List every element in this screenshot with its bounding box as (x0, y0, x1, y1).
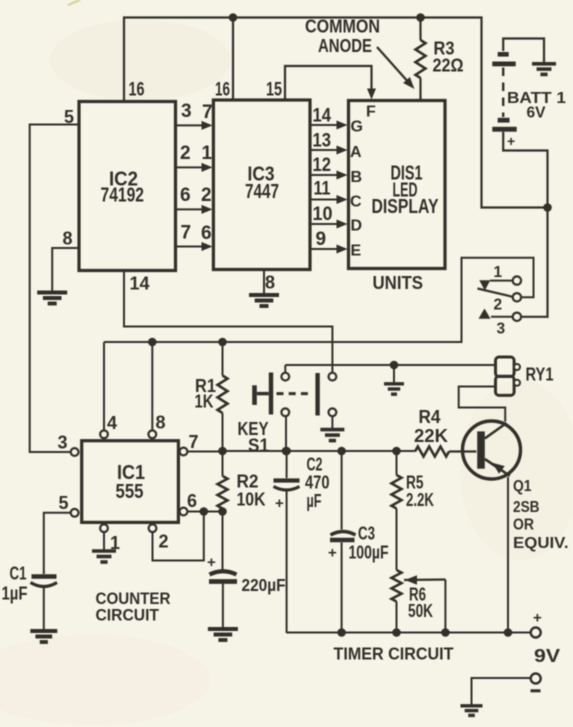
svg-text:R2: R2 (237, 472, 259, 492)
svg-text:F: F (366, 104, 376, 121)
svg-text:D: D (351, 218, 363, 235)
svg-text:10: 10 (313, 204, 333, 225)
svg-text:2: 2 (180, 143, 191, 164)
svg-text:3: 3 (58, 433, 68, 453)
svg-text:8: 8 (156, 413, 166, 433)
svg-text:+: + (207, 554, 216, 571)
svg-text:2SB: 2SB (513, 499, 540, 516)
svg-text:15: 15 (266, 80, 282, 101)
svg-text:1: 1 (110, 533, 120, 553)
svg-text:4: 4 (107, 413, 117, 433)
svg-text:7: 7 (189, 432, 199, 452)
svg-text:14: 14 (313, 106, 332, 127)
svg-text:1: 1 (494, 264, 503, 281)
svg-text:E: E (351, 243, 362, 260)
svg-text:7447: 7447 (245, 181, 279, 203)
svg-text:C3: C3 (358, 524, 375, 544)
svg-text:9V: 9V (534, 646, 560, 666)
svg-text:EQUIV.: EQUIV. (513, 535, 569, 552)
svg-text:Q1: Q1 (513, 478, 532, 495)
svg-text:12: 12 (313, 155, 332, 176)
svg-text:C1: C1 (10, 564, 27, 584)
svg-text:8: 8 (265, 273, 275, 293)
svg-text:COMMON: COMMON (305, 17, 380, 37)
svg-text:DISPLAY: DISPLAY (372, 196, 440, 218)
svg-text:+: + (275, 495, 284, 512)
svg-text:8: 8 (63, 229, 73, 249)
svg-text:470: 470 (305, 473, 330, 493)
svg-text:C2: C2 (307, 455, 323, 475)
svg-text:3: 3 (181, 101, 192, 122)
svg-text:µF: µF (307, 491, 322, 511)
svg-text:50K: 50K (408, 601, 433, 621)
svg-text:+: + (328, 545, 337, 562)
svg-text:C: C (350, 194, 362, 211)
svg-text:TIMER CIRCUIT: TIMER CIRCUIT (334, 644, 454, 664)
svg-text:5: 5 (64, 107, 74, 127)
svg-text:CIRCUIT: CIRCUIT (96, 607, 160, 625)
svg-text:555: 555 (116, 481, 144, 503)
svg-text:16: 16 (129, 80, 145, 101)
svg-text:6V: 6V (527, 105, 546, 122)
svg-text:2.2K: 2.2K (406, 490, 434, 510)
svg-text:7: 7 (202, 102, 213, 123)
svg-text:ANODE: ANODE (318, 36, 372, 56)
svg-text:9: 9 (316, 229, 327, 250)
svg-text:6: 6 (187, 491, 197, 511)
svg-text:S1: S1 (248, 436, 269, 456)
svg-text:10K: 10K (237, 490, 266, 510)
svg-text:2: 2 (201, 185, 212, 206)
svg-text:6: 6 (180, 185, 191, 206)
svg-text:2: 2 (159, 532, 169, 552)
svg-text:R4: R4 (419, 407, 441, 427)
svg-text:100µF: 100µF (349, 543, 389, 563)
svg-text:2: 2 (494, 297, 503, 314)
svg-text:5: 5 (59, 493, 69, 513)
svg-text:74192: 74192 (101, 185, 145, 207)
svg-text:16: 16 (215, 80, 230, 101)
svg-text:11: 11 (314, 179, 331, 200)
svg-text:7: 7 (181, 223, 192, 244)
svg-text:UNITS: UNITS (373, 273, 424, 293)
svg-text:+: + (533, 610, 542, 627)
svg-text:G: G (351, 119, 363, 136)
svg-text:1µF: 1µF (2, 584, 28, 604)
svg-text:6: 6 (201, 223, 212, 244)
svg-text:+: + (507, 133, 515, 149)
svg-text:3: 3 (497, 321, 506, 338)
svg-text:13: 13 (313, 131, 332, 152)
svg-text:22Ω: 22Ω (433, 56, 464, 76)
svg-text:1K: 1K (195, 392, 214, 412)
svg-text:B: B (351, 169, 363, 186)
svg-text:A: A (350, 144, 362, 161)
svg-text:220µF: 220µF (242, 575, 286, 595)
svg-text:1: 1 (202, 143, 213, 164)
svg-text:RY1: RY1 (526, 365, 554, 385)
svg-text:COUNTER: COUNTER (96, 590, 171, 608)
svg-text:22K: 22K (414, 426, 448, 446)
svg-text:14: 14 (130, 274, 150, 294)
svg-text:OR: OR (513, 517, 534, 534)
